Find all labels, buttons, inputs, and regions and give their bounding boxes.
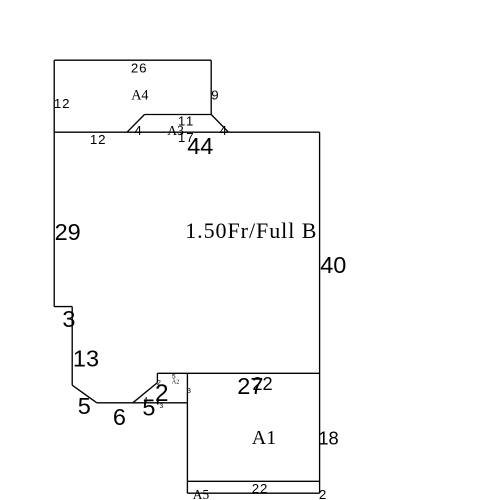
wall: A4 addition left bbox=[53, 60, 55, 132]
wall: left step horizontal bbox=[54, 306, 72, 308]
svg-text:40: 40 bbox=[320, 252, 346, 278]
wall: A4 addition right bbox=[210, 60, 212, 114]
wall: main house left bbox=[53, 132, 55, 306]
wall: A2 left vertical bbox=[156, 373, 158, 382]
wall: main house right bbox=[319, 132, 321, 493]
svg-text:A2: A2 bbox=[172, 378, 180, 385]
svg-text:9: 9 bbox=[211, 88, 218, 103]
svg-text:3: 3 bbox=[160, 403, 164, 410]
svg-text:2: 2 bbox=[157, 380, 161, 387]
svg-text:3: 3 bbox=[62, 306, 75, 332]
svg-text:2: 2 bbox=[319, 487, 326, 500]
wall: main house bottom bbox=[157, 372, 319, 374]
wall: A2 diagonal bbox=[133, 383, 158, 403]
svg-text:4: 4 bbox=[220, 123, 227, 138]
wall: A3 porch right slant bbox=[211, 115, 228, 133]
svg-text:A4: A4 bbox=[131, 87, 148, 103]
svg-text:18: 18 bbox=[318, 427, 338, 448]
svg-text:4: 4 bbox=[144, 395, 148, 404]
svg-text:22: 22 bbox=[252, 374, 272, 394]
svg-text:13: 13 bbox=[73, 346, 99, 372]
svg-text:6: 6 bbox=[113, 404, 126, 430]
svg-text:26: 26 bbox=[131, 61, 147, 76]
wall: A3 porch top bbox=[145, 114, 212, 116]
svg-text:3: 3 bbox=[187, 388, 191, 395]
svg-text:12: 12 bbox=[54, 96, 70, 111]
svg-text:12: 12 bbox=[90, 132, 106, 147]
wall: main house top bbox=[54, 131, 319, 133]
wall: A5 stoop bottom bbox=[187, 492, 319, 494]
wall: bottom horizontal ledge bbox=[97, 402, 188, 404]
svg-text:1.50Fr/Full B: 1.50Fr/Full B bbox=[185, 218, 317, 243]
wall: A4 addition top bbox=[54, 59, 211, 61]
wall: A1 left bbox=[186, 373, 188, 493]
wall: lower-left diagonal bbox=[72, 385, 97, 403]
svg-text:22: 22 bbox=[252, 481, 268, 496]
svg-text:A1: A1 bbox=[252, 427, 276, 449]
svg-text:5: 5 bbox=[78, 393, 91, 419]
wall: A3 porch left slant bbox=[127, 115, 145, 133]
wall: A1 bottom bbox=[187, 480, 319, 482]
svg-text:44: 44 bbox=[187, 133, 213, 159]
svg-text:4: 4 bbox=[134, 123, 141, 138]
svg-text:29: 29 bbox=[55, 219, 81, 245]
svg-text:A5: A5 bbox=[193, 487, 210, 500]
wall: left step vertical bbox=[71, 307, 73, 386]
